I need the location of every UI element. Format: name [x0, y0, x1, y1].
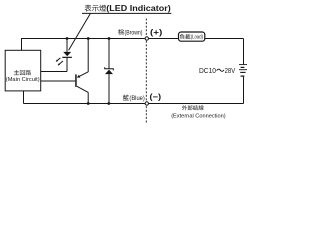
svg-text:(External Connection): (External Connection): [171, 113, 225, 119]
svg-text:(Load): (Load): [191, 35, 203, 41]
svg-text:(Main Circuit): (Main Circuit): [6, 77, 40, 83]
svg-text:(Brown): (Brown): [125, 30, 143, 37]
svg-text:(Blue): (Blue): [129, 95, 144, 102]
svg-text:DC10: DC10: [199, 66, 216, 75]
svg-text:(+): (+): [150, 28, 163, 37]
svg-text:(−): (−): [150, 92, 162, 101]
svg-text:28V: 28V: [225, 66, 236, 75]
svg-text:(LED Indicator): (LED Indicator): [106, 4, 171, 13]
